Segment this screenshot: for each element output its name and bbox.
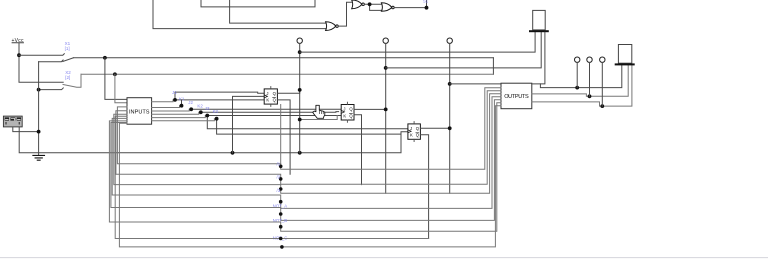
junction K2 (199, 110, 203, 114)
junction terminal E (588, 94, 592, 98)
junction J3 (205, 114, 209, 118)
wire U2 output (394, 0, 426, 8)
svg-text:J2: J2 (188, 100, 193, 105)
svg-text:J1: J1 (172, 90, 177, 95)
svg-text:K: K (266, 98, 269, 103)
svg-text:/1: /1 (277, 162, 281, 167)
wire FF1 Qbar out (277, 100, 290, 174)
wire C to OUTPUTS (450, 83, 501, 85)
junction net7 (279, 237, 283, 241)
wire OUTPUTS top to terminals (540, 65, 621, 87)
wire K1 riser (181, 100, 183, 106)
svg-text:K: K (410, 133, 413, 138)
junction clock FF1 (231, 151, 235, 155)
switch X2 arm (63, 74, 81, 87)
junction X1 branch (103, 56, 107, 60)
wire X1-X2 right link (492, 58, 494, 75)
maze line 2 (116, 91, 501, 184)
wire X1 output line (73, 57, 493, 59)
net J1 (175, 92, 264, 100)
maze line 5 (111, 100, 501, 221)
svg-text:K: K (343, 113, 346, 118)
wire terminal E lead (589, 63, 591, 97)
net J2 line to FF2 (191, 108, 341, 110)
junction B pullup (384, 66, 388, 70)
terminal A (297, 38, 302, 43)
wire clock riser FF1 (233, 96, 265, 152)
wire terminal D lead (576, 63, 578, 88)
junction K1 (180, 104, 184, 108)
wire INPUTS step J1 (152, 100, 173, 102)
junction Q1 branch (298, 118, 302, 122)
wire INPUTS step K1 (152, 106, 180, 108)
junction terminal D (575, 86, 579, 90)
maze line 4 (112, 97, 501, 209)
terminal E (587, 57, 592, 62)
svg-text:[2]: [2] (65, 75, 70, 80)
junction J2 (189, 107, 193, 111)
junction net6 (279, 225, 283, 229)
nor gate U3 (326, 22, 336, 31)
svg-text:K2: K2 (197, 103, 203, 108)
junction J1 (173, 98, 177, 102)
maze line 6 (109, 103, 501, 232)
junction net3 (279, 187, 283, 191)
hand cursor (313, 105, 325, 118)
flip-flop FF1 (264, 87, 277, 107)
wire X2 branch to INPUTS (115, 74, 127, 103)
wire terminal F lead (601, 63, 603, 107)
wire Q1 to FF2 K riser (300, 116, 338, 120)
svg-text:[1]: [1] (65, 46, 70, 51)
wire K1 line (175, 99, 264, 101)
svg-text:J3: J3 (205, 106, 210, 111)
wire B to pullup1 (386, 32, 542, 68)
junction A Q1 (298, 88, 302, 92)
wire X2 output line (81, 73, 493, 75)
wire clock output line (19, 127, 408, 153)
junction Vcc X1 (17, 53, 21, 57)
wire INPUTS step J3 (152, 116, 206, 118)
nor gate U2 (381, 3, 392, 12)
svg-text:/3: /3 (277, 188, 281, 193)
junction K3 (215, 117, 219, 121)
junction U1 out (368, 2, 372, 6)
terminal B (383, 38, 388, 43)
wire FF2 Q out (354, 108, 386, 110)
wire clock pin1 to ground rail (13, 127, 39, 132)
wire Vcc vertical (19, 44, 63, 83)
junction terminal F (600, 104, 604, 108)
junction X2 branch (113, 72, 117, 76)
wire FF1 bottom tap (280, 105, 282, 164)
wire terminal C lead (449, 44, 451, 194)
wire X1 top throw (19, 54, 64, 56)
wire FF3 Qbar out (420, 135, 428, 239)
wire OUTPUTS pin2 right (532, 65, 628, 96)
junction net8 (280, 245, 284, 249)
svg-text:S1: S1 (423, 0, 429, 4)
junction clock right (298, 151, 302, 155)
wire U1 out to U2 inputs (364, 3, 381, 5)
wire terminal A lead (299, 44, 301, 153)
maze line 1 (117, 88, 501, 169)
junction net1 (279, 165, 283, 169)
junction C Q3 (448, 126, 452, 130)
wire X1 branch to INPUTS (105, 58, 127, 100)
flip-flop FF3 (408, 122, 421, 142)
svg-text:J: J (410, 126, 412, 131)
maze line 8 (119, 106, 501, 247)
switch X1 arm (63, 58, 74, 62)
junction X2 ground (37, 88, 41, 92)
terminal F (600, 57, 605, 62)
wire top feedback second (230, 0, 326, 23)
net K2 line to FF2 clock (201, 111, 339, 114)
junction net5 (279, 212, 283, 216)
wire OUTPUTS pin3 right (532, 65, 632, 106)
maze line 3 (114, 94, 501, 194)
maze line 7 (115, 116, 428, 238)
junction clock ground (37, 130, 41, 134)
terminal C (447, 38, 452, 43)
pullup pack RP1 (529, 10, 549, 32)
net J3 line to FF2 K (207, 115, 341, 117)
junction B Q2 (384, 108, 388, 112)
clock generator CLK1 (3, 116, 22, 127)
wire terminal B lead (385, 44, 387, 194)
svg-text:/2: /2 (277, 174, 281, 179)
ground (33, 155, 45, 160)
wire FF2 Qbar out (354, 115, 362, 185)
wire FF3 Q out (420, 127, 449, 129)
wire X2 bottom throw (39, 88, 64, 90)
wire RP1 lead3 to OUTPUTS top (532, 32, 545, 84)
svg-text:J: J (266, 91, 268, 96)
wire INPUTS step K2 (152, 112, 199, 114)
flip-flop FF2 (341, 102, 354, 122)
junction net4 (279, 200, 283, 204)
nor gate U1 (352, 0, 362, 9)
junction C outputs (448, 82, 452, 86)
svg-text:J: J (343, 107, 345, 112)
wire X1 bottom throw (39, 60, 64, 62)
wire INPUTS step J2 (152, 109, 190, 111)
macro INPUTS (127, 98, 152, 125)
wire A to pullup1 (300, 32, 535, 52)
svg-text:OUTPUTS: OUTPUTS (504, 94, 529, 100)
svg-text:INPUTS: INPUTS (129, 109, 150, 115)
macro OUTPUTS (501, 83, 532, 109)
wire top small loop (201, 0, 315, 7)
junction net2 (279, 177, 283, 181)
junction U2 out (425, 6, 429, 10)
wire top feedback left vertical (153, 0, 326, 29)
wire J3 drop to FF3 J (207, 116, 408, 129)
svg-text:K3: K3 (213, 109, 219, 114)
wire FF1 Q out (277, 90, 299, 93)
wire INPUTS step K3 (152, 119, 215, 121)
terminal D (575, 57, 580, 62)
wire U3 output to U1 input (338, 2, 352, 26)
junction A pullup (298, 50, 302, 54)
pullup pack RP2 (615, 45, 635, 66)
net K3 to FF3 clock (217, 119, 401, 134)
separator line (0, 257, 768, 259)
wire ground rail (38, 62, 40, 156)
